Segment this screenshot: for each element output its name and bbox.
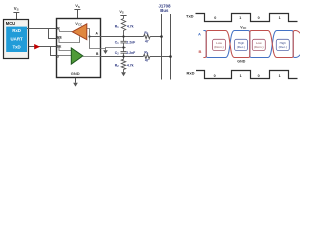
svg-text:0: 0	[214, 16, 216, 20]
svg-text:(Dom.): (Dom.)	[214, 45, 223, 49]
svg-text:2.2nF: 2.2nF	[126, 51, 135, 55]
svg-text:47: 47	[145, 59, 149, 63]
svg-text:Low: Low	[216, 41, 222, 45]
svg-text:R3: R3	[144, 31, 148, 36]
svg-text:VCC: VCC	[240, 25, 246, 30]
svg-text:TxD: TxD	[186, 13, 194, 18]
svg-text:VS: VS	[14, 6, 19, 12]
svg-text:C1: C1	[115, 41, 119, 46]
svg-text:1: 1	[239, 16, 241, 20]
svg-text:A: A	[198, 32, 201, 37]
svg-text:UART: UART	[10, 36, 23, 41]
svg-text:MCU: MCU	[6, 21, 15, 26]
svg-text:(Rec.): (Rec.)	[279, 45, 287, 49]
svg-text:B: B	[199, 49, 202, 54]
svg-text:R4: R4	[144, 51, 148, 56]
svg-text:RxD: RxD	[187, 71, 195, 76]
svg-text:1: 1	[279, 74, 281, 78]
svg-text:R1: R1	[115, 25, 119, 30]
svg-text:R2: R2	[115, 64, 119, 69]
svg-text:0: 0	[214, 74, 216, 78]
svg-text:High: High	[238, 41, 245, 45]
svg-text:47: 47	[145, 39, 149, 43]
svg-text:0: 0	[258, 16, 260, 20]
svg-text:4.7k: 4.7k	[127, 64, 134, 68]
svg-text:(Rec.): (Rec.)	[237, 45, 245, 49]
svg-text:1: 1	[240, 74, 242, 78]
svg-text:GND: GND	[71, 71, 80, 76]
svg-text:TxD: TxD	[12, 45, 20, 50]
svg-text:VS: VS	[75, 3, 80, 9]
svg-text:VS: VS	[119, 10, 124, 15]
svg-text:C2: C2	[115, 51, 119, 56]
svg-text:1: 1	[279, 16, 281, 20]
svg-text:High: High	[280, 41, 287, 45]
svg-text:(Dom.): (Dom.)	[254, 45, 263, 49]
svg-text:VCC: VCC	[75, 21, 83, 27]
svg-text:2.2nF: 2.2nF	[126, 41, 135, 45]
svg-text:RxD: RxD	[12, 28, 21, 33]
svg-text:Low: Low	[256, 41, 262, 45]
svg-text:GND: GND	[237, 60, 245, 64]
svg-text:Bus: Bus	[160, 8, 169, 13]
svg-text:0: 0	[258, 74, 260, 78]
svg-text:4.7k: 4.7k	[127, 25, 134, 29]
